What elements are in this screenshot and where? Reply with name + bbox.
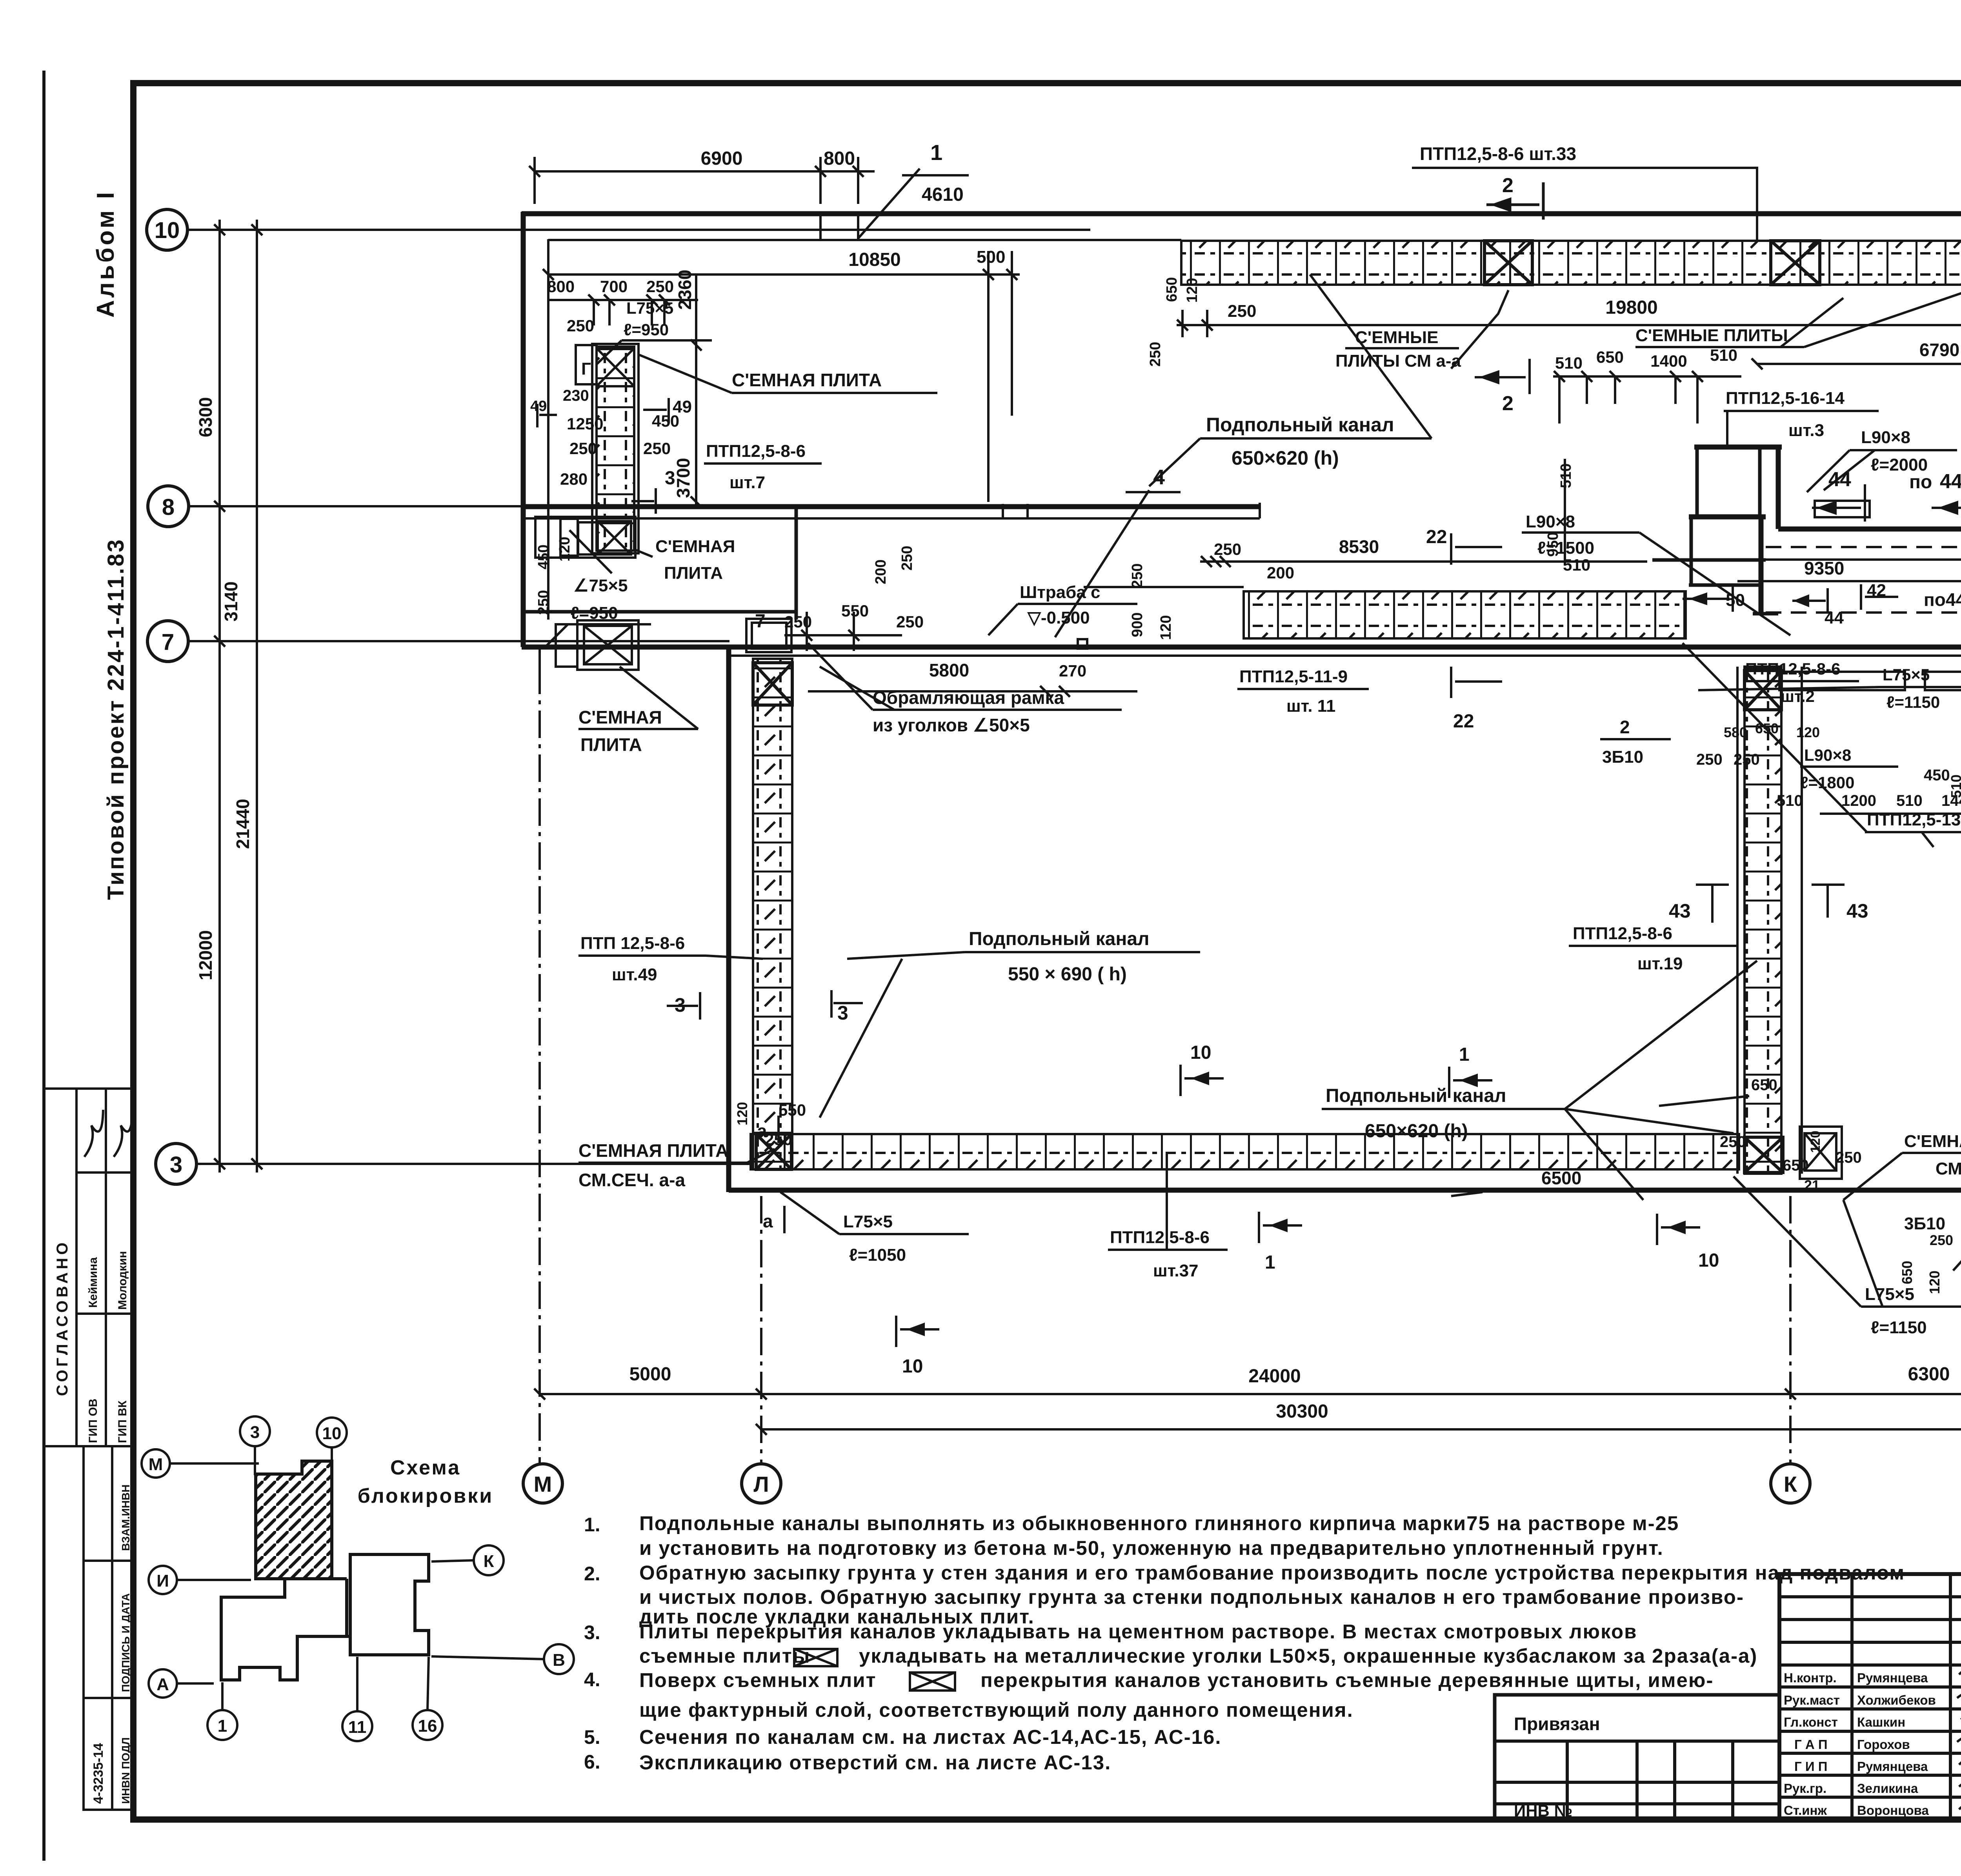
svg-text:Кашкин: Кашкин xyxy=(1857,1715,1905,1729)
svg-text:по: по xyxy=(1909,472,1932,493)
svg-text:650: 650 xyxy=(1899,1261,1915,1284)
svg-text:Подпольный канал: Подпольный канал xyxy=(1206,414,1394,436)
svg-text:120: 120 xyxy=(734,1102,750,1125)
svg-text:16: 16 xyxy=(418,1716,437,1736)
svg-text:Типовой проект 224-1-411.83: Типовой проект 224-1-411.83 xyxy=(103,538,129,900)
top channel xyxy=(1181,241,1961,285)
svg-text:Л: Л xyxy=(753,1472,769,1496)
svg-text:Воронцова: Воронцова xyxy=(1857,1803,1929,1818)
wall under upper-left stair room xyxy=(523,610,796,614)
svg-text:шт.3: шт.3 xyxy=(1788,421,1824,440)
stair area walls xyxy=(1778,527,1961,532)
svg-text:ПЛИТА: ПЛИТА xyxy=(664,564,723,583)
svg-text:9350: 9350 xyxy=(1804,558,1844,578)
svg-text:Горохов: Горохов xyxy=(1857,1737,1910,1752)
svg-text:2: 2 xyxy=(1620,717,1630,737)
44 flags upper xyxy=(1812,484,1865,522)
svg-text:ПТП12,5-8-6 шт.33: ПТП12,5-8-6 шт.33 xyxy=(1420,144,1576,164)
svg-text:550: 550 xyxy=(779,1101,806,1119)
svg-text:СОГЛАСОВАНО: СОГЛАСОВАНО xyxy=(54,1240,71,1396)
svg-text:10: 10 xyxy=(1190,1042,1211,1063)
svg-text:200: 200 xyxy=(873,560,889,584)
svg-text:L90×8: L90×8 xyxy=(1526,512,1575,531)
svg-text:Румянцева: Румянцева xyxy=(1857,1759,1928,1774)
svg-text:230: 230 xyxy=(563,387,589,404)
svg-text:С'ЕМНАЯ ПЛИТА: С'ЕМНАЯ ПЛИТА xyxy=(732,370,882,390)
svg-text:1: 1 xyxy=(1265,1252,1275,1273)
svg-text:49: 49 xyxy=(673,397,692,416)
parapet break on top wall (800 gap) xyxy=(819,214,822,240)
svg-text:ГИП ВК: ГИП ВК xyxy=(116,1400,129,1443)
svg-text:250: 250 xyxy=(1696,751,1723,768)
svg-text:С'ЕМНАЯ ПЛИТА: С'ЕМНАЯ ПЛИТА xyxy=(578,1140,728,1161)
axis-8 wall xyxy=(523,504,1260,509)
svg-text:280: 280 xyxy=(560,470,588,488)
svg-text:250: 250 xyxy=(1129,564,1146,588)
svg-text:Обратную засыпку грунта у стен: Обратную засыпку грунта у стен здания и … xyxy=(639,1562,1905,1584)
svg-text:L90×8: L90×8 xyxy=(1861,428,1910,447)
left building shape xyxy=(221,1579,347,1680)
svg-text:510: 510 xyxy=(1896,792,1923,809)
svg-text:Гл.конст: Гл.конст xyxy=(1784,1715,1838,1729)
svg-text:3: 3 xyxy=(837,1002,848,1024)
svg-text:2: 2 xyxy=(1502,392,1513,415)
flags near bottom xyxy=(1259,1212,1302,1243)
svg-text:510: 510 xyxy=(1563,556,1590,574)
svg-text:ИНВN ПОДЛ: ИНВN ПОДЛ xyxy=(120,1737,132,1804)
left vertical dimension chains xyxy=(214,220,262,1172)
top wall outer xyxy=(522,211,1961,216)
svg-text:5000: 5000 xyxy=(629,1364,671,1385)
svg-text:ПОДПИСЬ И ДАТА: ПОДПИСЬ И ДАТА xyxy=(120,1593,132,1692)
leaders xyxy=(170,1446,544,1711)
svg-text:800: 800 xyxy=(824,148,855,169)
left wall lower xyxy=(726,647,731,1192)
small boxes below stair xyxy=(1779,672,1905,690)
svg-text:L75×5: L75×5 xyxy=(843,1212,893,1231)
svg-text:К: К xyxy=(484,1552,494,1571)
svg-text:перекрытия каналов установить: перекрытия каналов установить съемные де… xyxy=(980,1669,1714,1691)
outer thin left line xyxy=(42,71,45,1861)
svg-text:шт.19: шт.19 xyxy=(1637,954,1683,973)
svg-text:3Б10: 3Б10 xyxy=(1602,747,1643,767)
svg-text:Подпольные каналы выполнять из: Подпольные каналы выполнять из обыкновен… xyxy=(639,1512,1679,1534)
svg-text:8: 8 xyxy=(162,494,175,520)
svg-text:700: 700 xyxy=(600,277,628,296)
svg-text:10: 10 xyxy=(902,1356,923,1377)
svg-text:∠75×5: ∠75×5 xyxy=(573,576,628,595)
svg-text:съемные плиты: съемные плиты xyxy=(639,1645,810,1667)
svg-text:200: 200 xyxy=(1267,564,1294,582)
svg-text:10: 10 xyxy=(155,218,180,243)
svg-text:250: 250 xyxy=(1734,751,1760,768)
middle channel xyxy=(1244,591,1686,638)
svg-text:1: 1 xyxy=(218,1716,227,1736)
svg-text:6790: 6790 xyxy=(1919,340,1959,360)
svg-text:1.: 1. xyxy=(584,1514,600,1536)
svg-text:СМ.СЕЧ. а-а: СМ.СЕЧ. а-а xyxy=(578,1170,685,1190)
svg-text:Кеймина: Кеймина xyxy=(87,1257,100,1308)
svg-text:250: 250 xyxy=(1835,1149,1862,1166)
svg-text:ВЗАМ.ИНВН: ВЗАМ.ИНВН xyxy=(120,1484,132,1551)
privyazan table xyxy=(1495,1695,1779,1820)
svg-text:120: 120 xyxy=(1796,724,1820,740)
svg-text:L75×5: L75×5 xyxy=(626,299,673,317)
svg-text:Холжибеков: Холжибеков xyxy=(1857,1693,1936,1707)
svg-text:4.: 4. xyxy=(584,1669,600,1691)
svg-text:ℓ=1150: ℓ=1150 xyxy=(1871,1318,1927,1337)
svg-text:ИНВ №: ИНВ № xyxy=(1514,1801,1572,1820)
svg-text:5800: 5800 xyxy=(929,660,969,680)
svg-text:и чистых полов. Обратную засып: и чистых полов. Обратную засыпку грунта … xyxy=(639,1586,1744,1608)
svg-text:250: 250 xyxy=(646,277,674,296)
svg-text:2360: 2360 xyxy=(675,270,695,310)
svg-text:650×620 (h): 650×620 (h) xyxy=(1232,447,1339,469)
left vertical channel xyxy=(753,659,792,1169)
svg-text:250: 250 xyxy=(1720,1133,1746,1151)
svg-text:44: 44 xyxy=(1825,608,1844,627)
svg-text:С'ЕМНЫЕ: С'ЕМНЫЕ xyxy=(1355,328,1438,347)
svg-text:250: 250 xyxy=(643,439,671,458)
svg-text:Подпольный канал: Подпольный канал xyxy=(1326,1085,1506,1106)
svg-text:Молодкин: Молодкин xyxy=(116,1251,129,1310)
svg-text:К: К xyxy=(1784,1472,1797,1496)
lower margin strip xyxy=(84,1446,135,1810)
svg-text:44: 44 xyxy=(1828,468,1851,491)
svg-text:1: 1 xyxy=(930,140,942,165)
svg-text:ПТП12,5-8-6: ПТП12,5-8-6 xyxy=(1745,660,1840,678)
svg-text:250: 250 xyxy=(896,613,924,631)
svg-text:250: 250 xyxy=(535,590,552,615)
svg-text:21: 21 xyxy=(1804,1177,1820,1193)
main block xyxy=(1779,1574,1961,1820)
svg-text:В: В xyxy=(553,1651,565,1670)
svg-text:блокировки: блокировки xyxy=(358,1485,493,1507)
svg-text:3140: 3140 xyxy=(221,582,241,622)
svg-text:50: 50 xyxy=(1726,591,1745,610)
svg-text:Н.контр.: Н.контр. xyxy=(1784,1671,1837,1685)
svg-text:Г И П: Г И П xyxy=(1794,1759,1827,1774)
axis-7 wall across xyxy=(522,645,1961,650)
svg-text:450: 450 xyxy=(1924,767,1950,784)
svg-text:120: 120 xyxy=(1184,278,1201,303)
svg-text:Зеликина: Зеликина xyxy=(1857,1781,1918,1796)
svg-text:ПТП12,5-16-14: ПТП12,5-16-14 xyxy=(1726,389,1845,408)
svg-text:Плиты перекрытия каналов уклад: Плиты перекрытия каналов укладывать на ц… xyxy=(639,1620,1637,1643)
svg-text:43: 43 xyxy=(1669,900,1691,922)
svg-text:43: 43 xyxy=(1846,900,1868,922)
svg-text:а: а xyxy=(757,1121,767,1141)
bottom channel xyxy=(751,1134,1739,1169)
svg-text:550: 550 xyxy=(841,602,869,620)
flag 2 top xyxy=(1486,182,1543,220)
lintel boxes xyxy=(1815,501,1870,517)
svg-text:М: М xyxy=(149,1455,163,1474)
svg-text:ℓ=1800: ℓ=1800 xyxy=(1800,773,1855,792)
svg-text:1200: 1200 xyxy=(1841,792,1876,809)
small stub channel at top of left vertical channel (above axis7 wall) xyxy=(746,619,791,652)
svg-text:510: 510 xyxy=(1777,792,1803,809)
svg-text:650×620 (h): 650×620 (h) xyxy=(1365,1121,1468,1142)
svg-text:ПТП12,5-13-13: ПТП12,5-13-13 xyxy=(1867,810,1961,829)
svg-text:6300: 6300 xyxy=(195,397,216,437)
svg-text:6900: 6900 xyxy=(701,148,743,169)
svg-text:1250: 1250 xyxy=(567,414,603,433)
svg-text:по44: по44 xyxy=(1924,589,1961,610)
svg-text:шт.37: шт.37 xyxy=(1153,1261,1199,1280)
svg-text:650: 650 xyxy=(1783,1157,1809,1174)
svg-text:3: 3 xyxy=(250,1423,260,1442)
svg-text:Альбом I: Альбом I xyxy=(92,190,119,318)
svg-text:120: 120 xyxy=(1158,615,1174,640)
inline X-plate symbols in notes xyxy=(794,1649,955,1691)
49 flags xyxy=(537,398,669,427)
svg-text:С'ЕМНАЯ: С'ЕМНАЯ xyxy=(655,537,735,556)
left wall upper outer xyxy=(521,212,526,647)
19800 dim xyxy=(1177,310,1961,337)
svg-text:4: 4 xyxy=(1153,465,1165,489)
svg-text:ПЛИТЫ СМ а-а: ПЛИТЫ СМ а-а xyxy=(1335,351,1461,371)
svg-text:ℓ=1150: ℓ=1150 xyxy=(1886,693,1940,711)
svg-text:3: 3 xyxy=(170,1152,182,1178)
signatures squiggles xyxy=(1957,1665,1961,1811)
hatched block xyxy=(256,1461,332,1579)
svg-text:И: И xyxy=(156,1571,169,1591)
svg-text:Рук.маст: Рук.маст xyxy=(1784,1693,1840,1707)
svg-text:ПТП12,5-8-6: ПТП12,5-8-6 xyxy=(1110,1228,1210,1247)
svg-text:Поверх съемных плит: Поверх съемных плит xyxy=(639,1669,877,1691)
svg-text:Подпольный канал: Подпольный канал xyxy=(969,929,1150,949)
svg-text:а: а xyxy=(763,1211,773,1231)
svg-text:120: 120 xyxy=(1808,1131,1823,1153)
svg-text:С'ЕМНАЯ ПЛИТА: С'ЕМНАЯ ПЛИТА xyxy=(1904,1132,1961,1151)
svg-text:ПТП12,5-8-6: ПТП12,5-8-6 xyxy=(1573,924,1672,943)
svg-text:СМ. а - а: СМ. а - а xyxy=(1936,1159,1961,1178)
upper-left small channel xyxy=(535,344,639,558)
svg-text:49: 49 xyxy=(530,398,547,414)
svg-text:L75×5: L75×5 xyxy=(1865,1285,1914,1304)
svg-text:ПЛИТА: ПЛИТА xyxy=(580,734,642,755)
svg-text:580: 580 xyxy=(1724,724,1747,740)
svg-text:900: 900 xyxy=(1129,613,1146,637)
10850 dim xyxy=(543,251,1020,502)
svg-text:щие фактурный слой, соответств: щие фактурный слой, соответствующий полу… xyxy=(639,1699,1353,1721)
svg-text:ПТП12,5-8-6: ПТП12,5-8-6 xyxy=(706,442,806,461)
svg-text:Схема: Схема xyxy=(390,1456,461,1479)
svg-text:Сечения по каналам см. на лист: Сечения по каналам см. на листах АС-14,А… xyxy=(639,1726,1222,1748)
svg-text:Экспликацию отверстий см. на л: Экспликацию отверстий см. на листе АС-13… xyxy=(639,1751,1111,1774)
svg-text:М: М xyxy=(534,1472,552,1496)
lower small X-plate frame (below axis 8 wall) xyxy=(556,620,639,670)
svg-text:650: 650 xyxy=(1164,277,1180,302)
svg-text:Рук.гр.: Рук.гр. xyxy=(1784,1781,1826,1796)
svg-text:250: 250 xyxy=(569,439,597,458)
svg-text:▽-0.500: ▽-0.500 xyxy=(1027,608,1090,627)
svg-text:450: 450 xyxy=(535,545,552,569)
svg-text:270: 270 xyxy=(1059,662,1086,680)
svg-text:250: 250 xyxy=(899,546,915,571)
svg-text:1400: 1400 xyxy=(1650,352,1687,370)
svg-text:ПТП12,5-11-9: ПТП12,5-11-9 xyxy=(1239,667,1348,686)
svg-text:10850: 10850 xyxy=(848,249,900,270)
svg-text:250: 250 xyxy=(1930,1232,1953,1248)
svg-text:Привязан: Привязан xyxy=(1514,1714,1600,1734)
svg-text:6300: 6300 xyxy=(1908,1364,1950,1385)
svg-text:44: 44 xyxy=(1940,470,1961,493)
svg-text:510: 510 xyxy=(1555,354,1583,372)
svg-text:250: 250 xyxy=(1147,342,1164,367)
svg-text:ГИП ОВ: ГИП ОВ xyxy=(87,1399,100,1443)
svg-text:4610: 4610 xyxy=(922,184,964,205)
svg-text:250: 250 xyxy=(567,316,594,335)
svg-text:250: 250 xyxy=(1228,302,1256,321)
svg-text:3Б10: 3Б10 xyxy=(1904,1214,1945,1233)
svg-text:2.: 2. xyxy=(584,1563,600,1585)
svg-text:7: 7 xyxy=(162,629,174,655)
left margin approval table xyxy=(44,1089,135,1446)
svg-text:24000: 24000 xyxy=(1248,1366,1301,1387)
svg-text:шт. 11: шт. 11 xyxy=(1286,696,1335,716)
bottom-right framed X plate xyxy=(1800,1127,1842,1179)
svg-text:А: А xyxy=(156,1675,169,1694)
svg-text:6500: 6500 xyxy=(1541,1168,1581,1188)
svg-text:шт.7: шт.7 xyxy=(729,473,765,492)
svg-text:и установить на подготовку из: и установить на подготовку из бетона м-5… xyxy=(639,1537,1664,1559)
svg-text:6.: 6. xyxy=(584,1751,600,1773)
svg-text:ПТП 12,5-8-6: ПТП 12,5-8-6 xyxy=(580,934,685,953)
svg-text:22: 22 xyxy=(1426,527,1447,547)
svg-text:4-3235-14: 4-3235-14 xyxy=(91,1743,106,1804)
svg-text:550 × 690 ( h): 550 × 690 ( h) xyxy=(1008,964,1127,985)
svg-text:укладывать на металлические уг: укладывать на металлические уголки L50×5… xyxy=(859,1645,1757,1667)
axis circles of schema xyxy=(142,1416,574,1741)
svg-text:10: 10 xyxy=(1698,1250,1719,1271)
svg-text:7: 7 xyxy=(755,611,766,632)
svg-text:ℓ=1050: ℓ=1050 xyxy=(849,1245,906,1265)
svg-text:30300: 30300 xyxy=(1276,1401,1328,1422)
svg-text:ℓ=950: ℓ=950 xyxy=(571,604,618,623)
signature rows xyxy=(1784,1671,1936,1818)
And axis M line piece in upper section xyxy=(538,647,541,667)
svg-text:2: 2 xyxy=(1502,174,1513,197)
svg-text:250: 250 xyxy=(1214,540,1241,558)
svg-text:650: 650 xyxy=(1596,348,1624,366)
svg-text:1: 1 xyxy=(1459,1044,1470,1065)
svg-text:10: 10 xyxy=(322,1424,342,1443)
svg-text:ℓ=950: ℓ=950 xyxy=(624,320,669,339)
svg-text:21440: 21440 xyxy=(233,799,253,849)
svg-text:Г: Г xyxy=(581,359,591,378)
svg-text:510: 510 xyxy=(1948,774,1961,798)
svg-text:шт.49: шт.49 xyxy=(612,965,657,984)
right building shape xyxy=(347,1554,429,1655)
svg-text:L75×5: L75×5 xyxy=(1883,665,1930,684)
top wall inner xyxy=(548,239,1181,241)
svg-text:5.: 5. xyxy=(584,1726,600,1748)
svg-text:3.: 3. xyxy=(584,1622,600,1643)
svg-text:500: 500 xyxy=(977,247,1005,267)
svg-text:Ст.инж: Ст.инж xyxy=(1784,1803,1827,1818)
svg-text:С'ЕМНЫЕ ПЛИТЫ: С'ЕМНЫЕ ПЛИТЫ xyxy=(1635,326,1788,345)
svg-text:650: 650 xyxy=(1751,1076,1777,1094)
svg-text:12000: 12000 xyxy=(195,930,216,980)
svg-text:ℓ=1500: ℓ=1500 xyxy=(1537,538,1594,558)
svg-text:510: 510 xyxy=(1710,346,1737,364)
svg-text:120: 120 xyxy=(557,537,573,562)
bottom wall xyxy=(729,1188,1961,1193)
svg-text:Румянцева: Румянцева xyxy=(1857,1671,1928,1685)
svg-text:8530: 8530 xyxy=(1339,536,1379,557)
svg-text:С'ЕМНАЯ: С'ЕМНАЯ xyxy=(578,707,662,727)
svg-text:L90×8: L90×8 xyxy=(1804,746,1851,764)
svg-text:из уголков ∠50×5: из уголков ∠50×5 xyxy=(873,715,1030,735)
svg-text:3: 3 xyxy=(665,468,675,489)
svg-text:3700: 3700 xyxy=(673,458,693,498)
svg-text:800: 800 xyxy=(547,277,575,296)
svg-text:22: 22 xyxy=(1453,711,1474,732)
svg-text:19800: 19800 xyxy=(1605,297,1657,318)
svg-text:Г А П: Г А П xyxy=(1794,1737,1828,1752)
svg-text:11: 11 xyxy=(348,1718,367,1737)
svg-text:120: 120 xyxy=(1926,1271,1943,1294)
right vertical channel xyxy=(1745,667,1781,1174)
